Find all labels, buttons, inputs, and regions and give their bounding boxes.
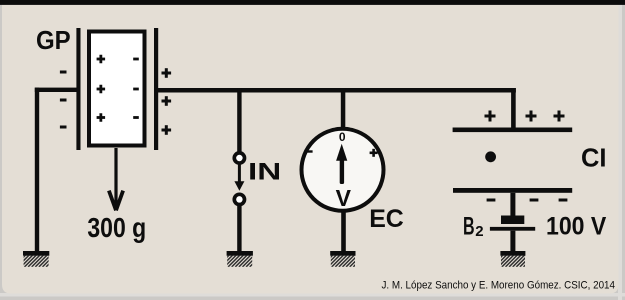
GP right plate positive charges [162,68,172,135]
svg-text:100 V: 100 V [546,212,607,240]
wire CI bottom plate to battery [510,193,515,216]
wire battery to ground [510,231,515,252]
CI top plate positive charges [485,111,565,122]
svg-text:IN: IN [248,159,281,186]
switch IN bottom contact [234,194,244,204]
GP left plate negative charges [60,71,67,129]
force arrow 300 g [109,148,123,210]
svg-text:EC: EC [369,205,404,233]
svg-text:GP: GP [36,25,71,55]
battery B2 positive bar [490,227,535,231]
wire left plate to left rail [35,88,80,92]
switch IN branch wire lower [237,205,241,252]
capacitor GP dielectric slab [89,32,145,146]
voltmeter needle arrow [336,144,347,184]
main bus wire [158,88,516,93]
capacitor GP left plate [76,28,80,150]
capacitor CI top plate [453,128,573,133]
CI bottom plate negative charges [487,199,568,202]
svg-text:300 g: 300 g [87,212,146,243]
ground battery [488,251,540,267]
switch IN top contact [234,153,244,163]
svg-text:CI: CI [581,143,607,173]
voltmeter branch wire lower [341,211,346,252]
voltmeter plus mark [370,149,378,157]
capacitor GP right plate [154,28,158,150]
bus bend wire down to CI [511,88,516,129]
CI gap charge dot [485,151,496,162]
ground left [10,251,65,267]
wire left rail down [35,88,39,252]
svg-text:J. M. López Sancho y E. Moreno: J. M. López Sancho y E. Moreno Gómez. CS… [382,279,616,291]
svg-text:B: B [463,212,475,240]
GP slab positive charges [97,55,106,122]
switch IN actuator arrow [234,164,244,191]
ground switch [214,251,269,267]
capacitor CI bottom plate [453,188,572,193]
svg-text:V: V [336,185,352,211]
switch IN branch wire upper [237,88,241,153]
GP slab negative charges [133,58,139,119]
svg-text:2: 2 [475,223,483,240]
ground voltmeter [317,251,372,267]
battery B2 negative bar [501,216,524,225]
svg-text:0: 0 [339,130,346,144]
voltmeter minus mark [307,150,312,152]
voltmeter EC body [302,129,384,211]
voltmeter branch wire upper [341,88,346,131]
